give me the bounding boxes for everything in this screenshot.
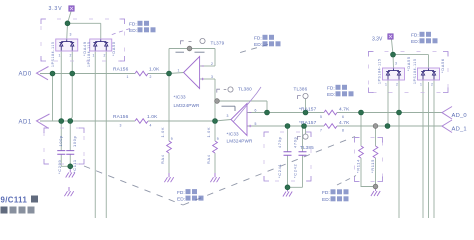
svg-text:ED:: ED: <box>411 39 419 45</box>
wire AD1 RA156 to junction <box>148 120 215 122</box>
net arrow AD0 <box>37 67 49 80</box>
wire RA4a bottom <box>168 153 170 173</box>
wire pack4 top pin <box>428 55 430 68</box>
svg-text:8: 8 <box>342 128 344 132</box>
svg-text:FD:: FD: <box>129 22 137 28</box>
svg-text:1: 1 <box>178 69 180 73</box>
dashed group box around DA49/DA50 <box>41 19 125 61</box>
svg-text:9: 9 <box>171 137 173 141</box>
net arrow AD1 <box>37 114 50 128</box>
svg-text:AD_1: AD_1 <box>452 126 467 132</box>
capacitor C241 <box>284 152 292 156</box>
note3 top-right <box>411 32 438 45</box>
node 3.3V left <box>65 21 70 26</box>
svg-text:3: 3 <box>120 123 122 127</box>
node AD_1 pack3 <box>385 124 390 129</box>
svg-text:6: 6 <box>342 115 344 119</box>
node AD1 x61 <box>59 119 64 124</box>
dashed leader line note2 left <box>235 45 268 55</box>
wire 3.3V left drop <box>68 12 72 24</box>
ground bottom left corner <box>64 187 73 196</box>
net arrow AD_1 <box>442 120 452 133</box>
svg-text:9: 9 <box>217 137 219 141</box>
wire RA4b top <box>214 121 216 141</box>
wire cap C241 bottom <box>288 155 303 187</box>
net arrow AD_0 <box>442 107 452 120</box>
resistor RA156 unit1 <box>135 71 148 76</box>
wire op-amp1 feedback top <box>169 48 215 50</box>
wire pack1 pin2 below AD0 <box>70 74 72 122</box>
wire pack1 pin2 down <box>71 51 73 74</box>
wire row1 to RA157a <box>267 112 324 114</box>
wire pack4 pin1 down <box>422 80 424 218</box>
svg-text:*C242: *C242 <box>293 164 298 178</box>
svg-text:1.0K: 1.0K <box>160 127 165 138</box>
wire R115 bottom <box>375 158 377 187</box>
svg-text:2: 2 <box>396 83 398 87</box>
svg-text:TL386: TL386 <box>294 86 308 91</box>
svg-text:470p: 470p <box>277 137 282 148</box>
wire pack2 pin1 down <box>94 51 96 218</box>
note4 TL386 right <box>327 85 354 98</box>
svg-text:LM324PWR: LM324PWR <box>174 103 200 108</box>
node caps right join <box>285 185 290 190</box>
svg-text:*R115: *R115 <box>370 159 375 173</box>
power flag 3.3V left <box>69 6 75 12</box>
wire pack4 extra vertical <box>428 82 430 218</box>
resistor RA157 unit7-8 <box>324 124 337 129</box>
wire AD1 net left <box>40 120 135 122</box>
svg-text:AD_0: AD_0 <box>452 113 467 119</box>
svg-text:3: 3 <box>227 114 229 118</box>
svg-text:5: 5 <box>320 115 322 119</box>
svg-text:1: 1 <box>385 83 387 87</box>
test point TL386 <box>303 93 308 98</box>
svg-text:*C241: *C241 <box>277 164 282 178</box>
resistor R114 <box>359 146 364 158</box>
wire pack3 pin2 down <box>398 80 400 218</box>
ground under R114/R115 <box>371 187 380 196</box>
svg-text:ED:: ED: <box>327 92 335 98</box>
svg-text:FD:: FD: <box>327 86 335 92</box>
node AD0 op-amp1 <box>167 71 172 76</box>
wire AD0 dot1 down <box>52 74 54 122</box>
svg-text:RA4: RA4 <box>160 154 165 164</box>
op-amp U1 IC33a <box>184 57 200 89</box>
svg-text:2: 2 <box>70 54 72 58</box>
wire RA157a to AD_0 <box>337 112 442 114</box>
svg-text:100p: 100p <box>58 135 63 146</box>
svg-text:7: 7 <box>320 128 322 132</box>
svg-text:TL380: TL380 <box>238 87 252 92</box>
wire pack4 pin2 down <box>433 80 435 218</box>
node AD_0 pack3 <box>397 110 402 115</box>
svg-text:TL379: TL379 <box>211 40 225 45</box>
dashed group box around DA55/DA56 <box>369 52 449 93</box>
wire cap C241 top <box>287 126 289 152</box>
ground under RA4 b <box>210 173 219 182</box>
test point TL380 <box>228 87 233 92</box>
wire op-amp1 output to AD0 junction <box>169 73 184 74</box>
wire op-amp2 inv pin <box>247 112 267 114</box>
wire cap C299 bottom <box>61 154 70 166</box>
wire TL385 tap <box>305 126 307 134</box>
svg-text:1: 1 <box>127 75 129 79</box>
node AD1 x70 <box>68 119 73 124</box>
resistor RA156 unit2 <box>135 119 148 124</box>
node gray TL380 <box>215 99 220 104</box>
svg-text:AD1: AD1 <box>19 119 32 125</box>
wire 3.3V left rail <box>68 22 101 24</box>
svg-text:1.0K: 1.0K <box>149 66 160 72</box>
dashed leader line caps box to vertex <box>84 166 183 205</box>
capacitor C111 <box>66 151 74 155</box>
wire cap C299 top <box>60 121 62 151</box>
wire AD0 net left <box>40 73 135 75</box>
svg-text:1: 1 <box>93 54 95 58</box>
svg-text:LM324PWR: LM324PWR <box>227 139 253 144</box>
svg-text:2: 2 <box>104 54 106 58</box>
wire RA4b bottom <box>214 153 216 173</box>
svg-text:*R114: *R114 <box>356 159 361 173</box>
svg-text:*DA50: *DA50 <box>111 41 116 56</box>
svg-text:3.3V: 3.3V <box>49 6 63 12</box>
svg-text:100p: 100p <box>72 136 77 147</box>
dashed leader line vertex to R114 box <box>183 137 355 206</box>
svg-text:*IC33: *IC33 <box>174 94 187 99</box>
wire 3.3V right rail <box>393 54 429 56</box>
node AD0 x52 <box>50 71 55 76</box>
ground under RA4 a <box>164 173 173 182</box>
svg-text:2: 2 <box>431 83 433 87</box>
dashed group box around C299/C111 <box>44 128 84 164</box>
svg-text:RA156: RA156 <box>113 66 129 72</box>
dashed group box around R114/R115 <box>355 138 383 182</box>
power flag 3.3V right <box>388 34 394 40</box>
ground under C241/C242 <box>283 187 292 196</box>
wire op-amp2 output to AD1 junction <box>215 120 231 122</box>
wire cap C242 top <box>302 126 304 152</box>
capacitor C299 <box>57 151 65 155</box>
node row1 TL386 <box>303 110 308 115</box>
wire AD0 RA156 to junction <box>148 73 169 75</box>
resistor RA4 a <box>167 141 172 153</box>
diode pack DA50 <box>90 39 112 51</box>
wire pack3 pin1 down <box>387 80 389 126</box>
svg-text:ED:: ED: <box>129 28 137 34</box>
wire 3.3V right drop <box>392 40 394 55</box>
svg-text:2: 2 <box>211 62 213 66</box>
svg-text:2: 2 <box>150 75 152 79</box>
wire op-amp1 noninv pin <box>200 78 215 80</box>
wire cap C111 top <box>69 121 71 151</box>
svg-text:*DA55: *DA55 <box>406 56 411 71</box>
node AD_0 R114 <box>359 110 364 115</box>
svg-text:*C111: *C111 <box>72 159 77 173</box>
svg-text:3: 3 <box>395 62 397 66</box>
wire cap C242 bottom <box>302 155 304 187</box>
wire TL386 tap <box>305 98 307 112</box>
node AD1 op-amp2 <box>213 119 218 124</box>
node row1 corner <box>265 110 270 115</box>
node row2 C241 <box>285 124 290 129</box>
svg-text:1PS184-115: 1PS184-115 <box>378 58 382 84</box>
node row2 C242 TL385 <box>302 124 307 129</box>
dashed group box around C241/C242 <box>264 132 311 181</box>
svg-text:3: 3 <box>70 33 72 37</box>
wire R114 bottom <box>361 158 376 187</box>
test point TL385 <box>303 134 308 139</box>
op-amp input polarity marks <box>202 66 252 127</box>
note1 top-left <box>129 21 156 34</box>
svg-text:ED:: ED: <box>322 197 330 203</box>
node gray R115 bottom <box>373 184 378 189</box>
svg-text:*C299: *C299 <box>57 160 62 174</box>
diode pack DA55 <box>383 68 405 80</box>
wire cap C111 bottom <box>69 154 71 166</box>
wire R114 top <box>360 113 362 147</box>
svg-text:FD:: FD: <box>177 190 185 196</box>
svg-text:FD:: FD: <box>411 33 419 39</box>
svg-text:1PS184-115: 1PS184-115 <box>413 58 417 84</box>
resistor R115 <box>373 146 378 158</box>
wire pack2 top pin <box>100 23 102 39</box>
wire pack1 top pin <box>66 23 69 39</box>
svg-text:ED:: ED: <box>254 42 262 48</box>
diode pack DA56 <box>418 68 440 80</box>
node caps left join <box>68 164 73 169</box>
svg-text:6: 6 <box>255 109 257 113</box>
svg-text:1PS184-115: 1PS184-115 <box>51 41 55 67</box>
svg-text:FD:: FD: <box>322 190 330 196</box>
wire pack2 pin2 down <box>105 51 107 218</box>
svg-text:FD:: FD: <box>254 36 262 42</box>
wire feedback2 corner down <box>266 101 268 113</box>
note2 top-mid <box>254 35 281 48</box>
svg-text:RA156: RA156 <box>113 114 129 120</box>
svg-text:RA4: RA4 <box>206 154 211 164</box>
svg-text:3.3V: 3.3V <box>372 36 383 42</box>
svg-text:*IC33: *IC33 <box>227 132 240 137</box>
node gray TL379 <box>187 46 192 51</box>
svg-text:*RA157: *RA157 <box>299 107 317 113</box>
resistor RA4 b <box>213 141 218 153</box>
svg-text:1PS184-115: 1PS184-115 <box>87 41 91 67</box>
bottom-left note text <box>1 196 39 214</box>
svg-text:*DA49: *DA49 <box>82 41 87 56</box>
node AD0 x72 <box>70 71 75 76</box>
leader line to op-amp2 <box>234 87 262 122</box>
svg-text:*RA157: *RA157 <box>299 120 317 126</box>
svg-text:5: 5 <box>255 122 257 126</box>
ground under C299/C111 <box>66 168 75 177</box>
diode pack DA49 <box>56 39 78 51</box>
svg-text:ED:: ED: <box>177 196 185 202</box>
wire op-amp1 feedback down to inv <box>214 49 216 67</box>
wire op-amp1 feedback vertical <box>168 49 170 74</box>
note5 bottom-mid <box>177 189 204 202</box>
svg-text:3: 3 <box>211 75 213 79</box>
dashed leader line note1 to packs <box>109 29 130 36</box>
wire row2 op-amp2 noninv to RA157b <box>247 125 324 127</box>
svg-text:1.0K: 1.0K <box>147 114 158 120</box>
wire op-amp1 inv pin <box>200 65 215 67</box>
wire RA157b to AD_1 <box>337 125 442 127</box>
svg-text:1.0K: 1.0K <box>206 127 211 138</box>
wire R115 top <box>375 126 377 146</box>
svg-text:1: 1 <box>59 54 61 58</box>
resistor RA157 unit5-6 <box>324 110 337 115</box>
capacitor C242 <box>299 152 307 156</box>
wire tl380 node horizontal <box>215 100 267 102</box>
op-amp U2 IC33b <box>231 104 247 136</box>
svg-text:9/C111: 9/C111 <box>1 196 28 205</box>
svg-text:*DA56: *DA56 <box>440 58 445 73</box>
wire vertical x215 noninv to AD1 <box>214 79 216 121</box>
svg-text:AD0: AD0 <box>19 72 32 78</box>
svg-text:TL385: TL385 <box>300 145 314 150</box>
svg-text:1: 1 <box>420 83 422 87</box>
wire pack1 pin1 down <box>60 51 62 121</box>
node gray R115 top <box>373 124 378 129</box>
test point TL379 <box>200 38 205 43</box>
note6 bottom-right <box>322 189 349 203</box>
vertical labels <box>51 41 417 84</box>
svg-text:470p: 470p <box>293 137 298 148</box>
wire pack3 top pin <box>392 55 395 68</box>
dashed leader line note6 to R114 box <box>337 176 356 186</box>
wire RA4a top <box>168 74 170 142</box>
svg-text:4: 4 <box>150 123 152 127</box>
svg-text:4.7K: 4.7K <box>339 107 350 113</box>
svg-text:4.7K: 4.7K <box>339 120 350 126</box>
node 3.3V right <box>391 52 396 57</box>
